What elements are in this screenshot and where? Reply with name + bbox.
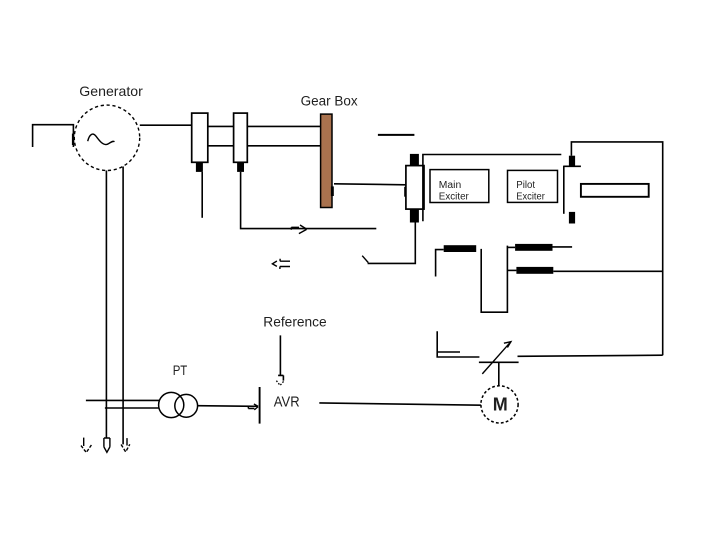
svg-text:Exciter: Exciter bbox=[516, 192, 545, 203]
svg-text:Main: Main bbox=[439, 180, 461, 191]
svg-text:Generator: Generator bbox=[79, 83, 143, 99]
svg-text:Pilot: Pilot bbox=[516, 180, 535, 191]
svg-text:PT: PT bbox=[173, 362, 188, 378]
svg-text:Exciter: Exciter bbox=[439, 192, 470, 203]
svg-text:Gear Box: Gear Box bbox=[301, 93, 358, 108]
svg-text:AVR: AVR bbox=[274, 393, 300, 410]
svg-text:M: M bbox=[493, 395, 508, 415]
svg-text:Reference: Reference bbox=[263, 315, 326, 330]
